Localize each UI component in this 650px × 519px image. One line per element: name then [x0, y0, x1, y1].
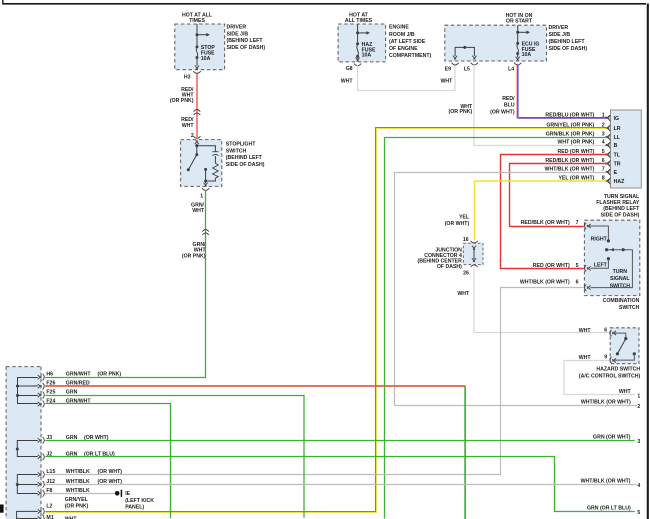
svg-text:SIDE OF DASH): SIDE OF DASH) [227, 45, 266, 51]
fuse HAZ FUSE 10A [356, 42, 376, 61]
connector J3 [38, 435, 109, 444]
svg-text:(LEFT KICK: (LEFT KICK [125, 498, 154, 504]
ground IE (left kick panel) [115, 490, 154, 511]
svg-text:(BEHIND LEFT: (BEHIND LEFT [603, 206, 640, 212]
svg-text:L2: L2 [46, 504, 52, 510]
svg-text:SWITCH: SWITCH [619, 305, 640, 311]
connector J2 [38, 451, 115, 460]
turn signal switch pin 5 connector [533, 263, 591, 272]
svg-text:WHT: WHT [440, 79, 453, 85]
connector H6 [38, 372, 122, 381]
svg-text:OF ENGINE: OF ENGINE [389, 46, 418, 52]
svg-text:SIDE OF DASH): SIDE OF DASH) [549, 46, 588, 52]
hazard switch pin 9 connector [579, 354, 616, 363]
flasher relay pin 3 connector [546, 131, 611, 140]
wire WHT (OR PNK) L5 to flasher relay pin 4 [449, 65, 607, 146]
svg-text:YEL: YEL [459, 214, 470, 220]
turn signal switch pin 7 connector [521, 220, 591, 229]
svg-text:OF DASH): OF DASH) [437, 264, 462, 270]
svg-text:G8: G8 [346, 66, 353, 72]
svg-text:HAZARD SWITCH: HAZARD SWITCH [596, 366, 640, 372]
wire RED/WHT (OR PNK) H3 to stoplight switch pin 2 [170, 73, 200, 140]
svg-text:SIDE J/B: SIDE J/B [549, 32, 571, 38]
svg-text:WHT: WHT [457, 291, 470, 297]
connector L5 [464, 63, 478, 73]
svg-text:(BEHIND LEFT: (BEHIND LEFT [549, 39, 586, 45]
svg-text:RED/: RED/ [502, 96, 515, 102]
turn signal switch LEFT contact [591, 257, 611, 269]
svg-text:WHT/BLK (OR WHT): WHT/BLK (OR WHT) [545, 166, 595, 172]
internal bus H6-F26-F25-F24 [16, 378, 38, 404]
connector F25 [38, 390, 78, 399]
flasher relay pin 4 connector [558, 139, 611, 148]
svg-text:16: 16 [463, 237, 469, 243]
turn signal switch pin 6 connector [520, 279, 591, 290]
svg-text:(OR PNK): (OR PNK) [98, 372, 122, 378]
svg-text:WHT/BLK: WHT/BLK [66, 469, 90, 475]
svg-text:H6: H6 [46, 372, 53, 378]
svg-text:ENGINE: ENGINE [389, 25, 409, 31]
svg-text:F25: F25 [46, 390, 55, 396]
flasher relay pin 1 connector [545, 112, 610, 121]
hazard switch contacts [615, 333, 636, 360]
junction connector 4 [418, 237, 483, 276]
connector J12 [38, 479, 123, 488]
svg-text:(OR WHT): (OR WHT) [490, 110, 515, 116]
svg-text:2: 2 [191, 133, 194, 139]
switch: hazard switch box [579, 328, 641, 380]
wire GRN/WHT stoplight pin 1 down to H6 [45, 190, 209, 378]
svg-text:RED/BLU (OR WHT): RED/BLU (OR WHT) [545, 112, 594, 118]
svg-text:(BEHIND LEFT: (BEHIND LEFT [226, 155, 263, 161]
flasher relay pin 2 connector [546, 122, 610, 131]
stoplight switch pin 2 entry connector [194, 136, 201, 144]
connector block: left instrument panel block [6, 367, 41, 519]
wire WHT G8 to E9 [341, 65, 455, 90]
svg-text:(OR PNK): (OR PNK) [182, 254, 206, 260]
svg-text:L4: L4 [508, 66, 514, 72]
wire WHT/BLK turn signal switch pin 6 to L15 [45, 288, 584, 475]
svg-text:B: B [614, 143, 618, 149]
svg-text:5: 5 [576, 263, 579, 269]
svg-text:1: 1 [602, 112, 605, 118]
wire GRN F25 down off page [45, 396, 304, 518]
connector L15 [38, 469, 123, 478]
svg-text:7: 7 [576, 220, 579, 226]
svg-text:WHT: WHT [192, 208, 205, 214]
flasher relay pin 6 connector [545, 158, 610, 167]
svg-text:LEFT: LEFT [594, 263, 608, 269]
turn signal switch wiper [591, 248, 633, 288]
connector L2 [38, 497, 89, 515]
switch: stoplight switch box [181, 140, 265, 187]
svg-text:10A: 10A [522, 52, 532, 58]
svg-text:TIMES: TIMES [189, 18, 205, 24]
wire WHT/BLK (OR WHT) flasher pin 7 to right edge pin 2 [395, 173, 637, 406]
svg-text:TL: TL [614, 152, 621, 158]
J/B box: driver side J/B top-left (STOP fuse) [175, 12, 266, 69]
wire GRN/RED F26 down off page [45, 386, 465, 519]
J/B box: engine room J/B (HAZ fuse) [338, 12, 431, 62]
fuse ECU IG FUSE 10A [516, 41, 540, 60]
svg-text:(OR WHT): (OR WHT) [98, 469, 123, 475]
svg-text:SIDE J/B: SIDE J/B [227, 31, 249, 37]
wire GRN/YEL (OR PNK) flasher pin 2 to L2 [45, 128, 606, 513]
svg-text:E9: E9 [445, 66, 451, 72]
J/B box: driver side J/B top-right (ECU IG fuse) [445, 13, 588, 61]
svg-text:ALL TIMES: ALL TIMES [345, 18, 373, 24]
svg-text:M1: M1 [46, 515, 53, 519]
internal bus L2-M1 [17, 511, 38, 518]
svg-text:FLASHER RELAY: FLASHER RELAY [596, 200, 640, 206]
svg-text:COMPARTMENT): COMPARTMENT) [389, 53, 432, 59]
svg-text:(BEHIND LEFT: (BEHIND LEFT [227, 38, 264, 44]
wire GRN J2 to right edge pin 5 [45, 457, 640, 517]
svg-text:GRN/BLK (OR PNK): GRN/BLK (OR PNK) [546, 131, 595, 137]
svg-text:STOPLIGHT: STOPLIGHT [226, 142, 256, 148]
svg-text:5: 5 [637, 510, 640, 516]
right edge pin 2 label [581, 400, 641, 410]
svg-text:SWITCH: SWITCH [610, 283, 631, 289]
svg-text:OR START: OR START [506, 18, 533, 24]
wire GRN/WHT F24 down off page [45, 404, 170, 519]
wire RED (OR WHT) flasher pin 5 to turn signal switch pin 5 [501, 155, 607, 269]
svg-text:4: 4 [637, 483, 640, 489]
svg-text:(A/C CONTROL SWITCH): (A/C CONTROL SWITCH) [579, 374, 641, 380]
connector F26 [38, 381, 90, 390]
svg-text:GRN (OR WHT): GRN (OR WHT) [593, 435, 631, 441]
svg-text:(OR PNK): (OR PNK) [65, 504, 89, 510]
svg-text:WHT: WHT [341, 79, 354, 85]
svg-text:SIDE OF DASH): SIDE OF DASH) [226, 162, 265, 168]
svg-text:(OR WHT): (OR WHT) [445, 221, 470, 227]
svg-text:L15: L15 [46, 469, 55, 475]
svg-text:GRN: GRN [66, 390, 78, 396]
svg-text:3: 3 [602, 131, 605, 137]
svg-text:(OR PNK): (OR PNK) [449, 109, 473, 115]
svg-text:IE: IE [125, 491, 130, 497]
svg-text:COMBINATION: COMBINATION [603, 298, 640, 304]
svg-text:IG: IG [614, 116, 619, 122]
svg-text:LL: LL [614, 135, 621, 141]
connector G8 [346, 64, 362, 73]
svg-text:RED/BLK (OR WHT): RED/BLK (OR WHT) [521, 220, 570, 226]
wire WHT/BLK F8 to ground [45, 493, 115, 495]
svg-text:H3: H3 [184, 75, 191, 81]
connector F8 [38, 488, 90, 497]
flasher relay pin 7 connector [545, 166, 611, 175]
svg-text:6: 6 [576, 279, 579, 285]
connector E9 [445, 63, 459, 73]
wire GRN J3 to right edge pin 3 [45, 435, 640, 445]
stoplight switch contacts [187, 144, 207, 183]
fuse STOP FUSE 10A [195, 45, 215, 70]
turn signal switch RIGHT contact [588, 226, 610, 243]
svg-text:E: E [614, 170, 618, 176]
page left edge black mark [0, 505, 4, 513]
wire WHT/BLK J12 to right edge pin 4 [45, 479, 640, 489]
svg-text:GRN/YEL: GRN/YEL [65, 497, 89, 503]
svg-text:9: 9 [604, 354, 607, 360]
relay: turn signal flasher relay box [596, 110, 641, 218]
svg-text:1: 1 [200, 193, 203, 199]
wire WHT junction connector 26 to hazard switch pin 6 [457, 268, 609, 333]
svg-text:GRN/WHT: GRN/WHT [66, 372, 92, 378]
svg-text:(AT LEFT SIDE: (AT LEFT SIDE [389, 39, 426, 45]
svg-text:DRIVER: DRIVER [227, 25, 247, 31]
svg-text:HAZ: HAZ [614, 179, 625, 185]
internal bus J3-J2 [16, 441, 38, 457]
connector H3 [184, 71, 201, 80]
page top border line [3, 0, 647, 5]
stoplight switch internal resistor-capacitor branch [197, 146, 219, 181]
wire RED/BLU (OR WHT) L4 to flasher relay pin 1 [490, 64, 607, 118]
svg-text:SIGNAL: SIGNAL [610, 276, 630, 282]
svg-text:10A: 10A [362, 53, 372, 59]
svg-text:RED (OR WHT): RED (OR WHT) [533, 263, 570, 269]
svg-text:10A: 10A [201, 56, 211, 62]
page right border line [647, 4, 649, 519]
svg-text:RIGHT: RIGHT [591, 237, 608, 243]
svg-text:1: 1 [637, 394, 640, 400]
svg-text:BLU: BLU [504, 103, 515, 109]
flasher relay pin 8 connector [558, 175, 610, 184]
svg-text:WHT/BLK (OR WHT): WHT/BLK (OR WHT) [581, 479, 631, 485]
switch: combination switch box (turn signal switch) [584, 220, 639, 311]
flasher relay pin 5 connector [558, 149, 611, 158]
svg-text:WHT: WHT [182, 123, 195, 129]
wire WHT hazard pin 9 to right edge pin 1 [564, 361, 640, 400]
svg-text:7: 7 [602, 166, 605, 172]
svg-text:SWITCH: SWITCH [226, 148, 247, 154]
svg-text:2: 2 [637, 404, 640, 410]
bus bracket to connectors E9 and L5 [453, 46, 477, 60]
svg-text:SIDE OF DASH): SIDE OF DASH) [601, 212, 640, 218]
svg-text:TURN SIGNAL: TURN SIGNAL [604, 194, 640, 200]
wire YEL (OR WHT) flasher pin 8 to junction connector 4 [445, 181, 607, 241]
svg-text:3: 3 [637, 439, 640, 445]
svg-text:WHT: WHT [579, 328, 592, 334]
svg-text:PANEL): PANEL) [125, 504, 144, 510]
wire GRN/BLK (OR PNK) flasher pin 3 down off page [385, 138, 607, 519]
svg-text:26: 26 [463, 271, 469, 277]
svg-text:LR: LR [614, 126, 621, 132]
bus tap arrow inside engine room J/B [356, 24, 370, 42]
svg-text:GRN (OR LT BLU): GRN (OR LT BLU) [587, 506, 631, 512]
connector M1 bottom cut row [38, 515, 78, 519]
svg-text:6: 6 [604, 327, 607, 333]
hazard switch pin 6 connector [579, 327, 616, 336]
svg-text:TURN: TURN [613, 269, 628, 275]
svg-text:(OR PNK): (OR PNK) [170, 98, 194, 104]
svg-text:WHT/BLK (OR WHT): WHT/BLK (OR WHT) [581, 400, 631, 406]
svg-text:4: 4 [602, 139, 605, 145]
connector L4 [508, 63, 521, 73]
stoplight switch pin 1 exit connector [200, 181, 209, 199]
svg-text:WHT/BLK (OR WHT): WHT/BLK (OR WHT) [520, 279, 570, 285]
svg-text:WHT (OR PNK): WHT (OR PNK) [558, 139, 595, 145]
svg-text:DRIVER: DRIVER [549, 25, 569, 31]
svg-text:ROOM J/B: ROOM J/B [389, 32, 415, 38]
wire RED/BLK (OR WHT) flasher pin 6 to turn signal switch pin 7 [510, 164, 607, 227]
svg-text:WHT: WHT [619, 389, 632, 395]
svg-text:L5: L5 [464, 66, 470, 72]
bus tap arrow inside J/B [196, 24, 210, 46]
svg-text:TR: TR [614, 161, 621, 167]
internal bus L15-J12-F8 [16, 475, 38, 494]
bus tap arrow inside driver J/B [516, 25, 530, 42]
connector F24 [38, 399, 92, 408]
